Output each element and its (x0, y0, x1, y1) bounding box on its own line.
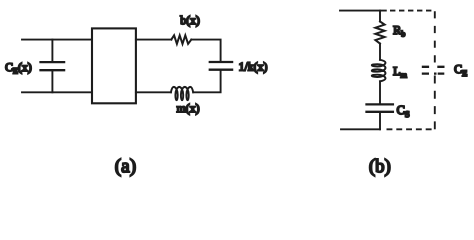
wire: box to resistor b(x) (136, 39, 171, 41)
svg-text:(b): (b) (369, 156, 391, 177)
dashed wire: top of C_E branch (390, 10, 435, 12)
wire: (b) branch from top wire to resistor (379, 11, 381, 22)
svg-text:1/k(x): 1/k(x) (239, 59, 268, 73)
svg-text:b(x): b(x) (180, 13, 200, 27)
two-port network box (92, 28, 136, 103)
capacitor C_E(x) stem top (51, 40, 53, 62)
resistor b(x) (171, 35, 191, 44)
svg-text:m(x): m(x) (177, 101, 200, 115)
capacitor 1/k(x) plates (210, 62, 232, 70)
wire: box to inductor m(x) (136, 91, 171, 93)
wire: (a) bottom-left wire (22, 91, 92, 93)
wire: (b) top wire (340, 10, 386, 12)
resistor R_b (375, 22, 384, 44)
dashed wire: right vertical below C_E (434, 76, 436, 130)
wire: capacitor down to bottom-right corner, left to inductor (193, 71, 220, 93)
inductor L_m (372, 60, 386, 82)
wire: resistor to inductor (379, 44, 381, 60)
svg-text:(a): (a) (115, 156, 136, 177)
svg-text:CE(x): CE(x) (5, 60, 32, 76)
capacitor C_E(x) plates (41, 62, 65, 70)
svg-text:CE: CE (454, 62, 467, 78)
dashed wire: bottom of C_E branch (387, 128, 435, 130)
capacitor C_s plates (367, 104, 393, 111)
dashed wire: right vertical above C_E (434, 11, 436, 62)
wire: (b) bottom wire (341, 128, 380, 130)
capacitor C_E dashed top plate (422, 66, 445, 68)
capacitor C_s stem to bottom wire (379, 113, 381, 130)
capacitor C_E dashed bottom plate with center dot (422, 72, 445, 74)
inductor m(x) (171, 87, 193, 100)
capacitor C_E(x) stem bottom (51, 71, 53, 92)
wire: inductor to capacitor C_s (379, 81, 381, 103)
svg-text:Lm: Lm (393, 64, 407, 80)
svg-text:Rb: Rb (393, 23, 405, 39)
svg-text:CS: CS (397, 103, 410, 119)
wire: (a) top-left wire (22, 39, 92, 41)
wire: resistor to top-right corner, down to capacitor (191, 40, 220, 62)
